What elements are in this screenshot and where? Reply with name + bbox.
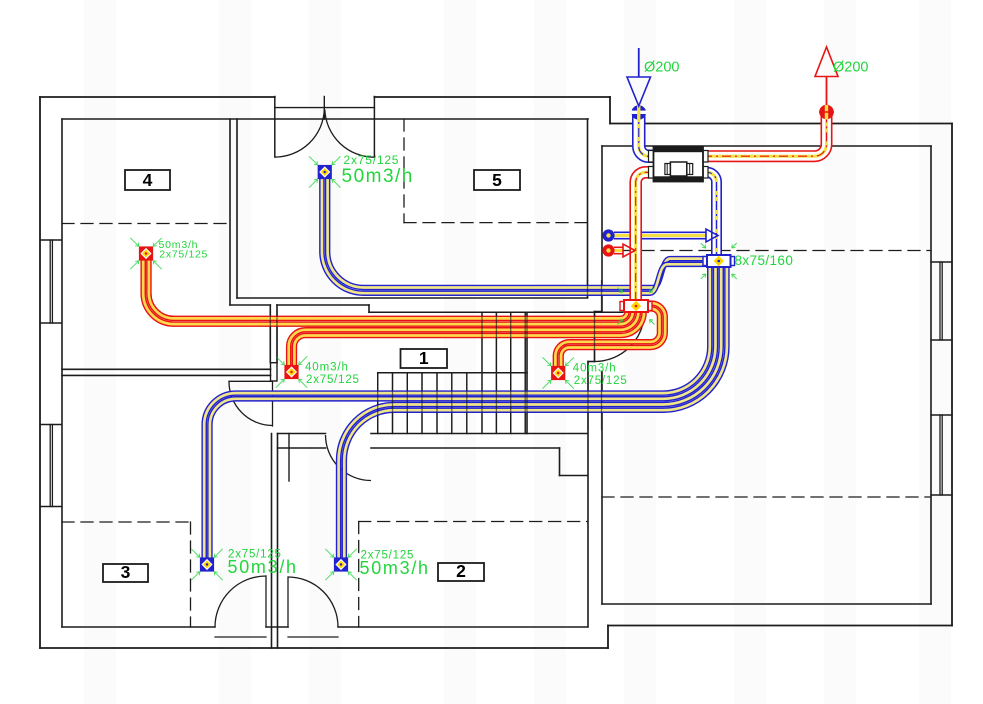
- door leaf bottom-left: [265, 576, 267, 627]
- door swing arc room3: [229, 381, 273, 425]
- blue duct B6 manifold to terminal TBM (inner): [344, 267, 727, 558]
- wall main right overlay: [587, 280, 589, 297]
- blue stub end cap: [603, 230, 614, 241]
- svg-text:4: 4: [143, 170, 153, 190]
- door swing bottom-left: [215, 576, 266, 627]
- room label box 3: [103, 564, 148, 582]
- stair tread upper overlay 1: [481, 312, 483, 433]
- dashed zone wing lower: [602, 496, 931, 498]
- stair right edge: [526, 312, 528, 433]
- stair tread lower 5: [436, 373, 438, 434]
- wall divider line1: [62, 368, 271, 370]
- red pipe centerline dashes: [636, 172, 654, 300]
- stair tread upper 1: [481, 312, 483, 433]
- dashed zone room2 vert: [358, 522, 360, 628]
- wall wing bottom inner: [602, 603, 931, 605]
- svg-text:50m3/h: 50m3/h: [228, 557, 298, 577]
- stair tread lower 6: [451, 373, 453, 434]
- wall outer wing bottom: [608, 625, 952, 627]
- blue stub duct plant room: [614, 232, 706, 240]
- stair tread upper overlay 2: [495, 312, 497, 433]
- wall alcove bottom: [560, 475, 588, 477]
- svg-text:50m3/h: 50m3/h: [360, 558, 430, 578]
- wall outer step top-right: [609, 97, 611, 124]
- window left W1: [40, 239, 61, 241]
- red duct R3 manifold to terminal TL (outer): [289, 312, 639, 366]
- door jamb left: [274, 97, 276, 158]
- dashed zone wing upper: [604, 250, 931, 252]
- wall corridor bottom segA: [278, 433, 326, 435]
- wall corridor bottom2 segB: [371, 447, 560, 449]
- wall outer wing top: [610, 123, 952, 125]
- red stub end cap: [603, 245, 614, 256]
- red duct R5 manifold U-turn to terminal TR (inner): [555, 309, 659, 367]
- stair upper edge / shaft wall: [369, 311, 623, 313]
- intake roof cap (blue): [631, 105, 646, 120]
- wall shaft right: [594, 312, 596, 362]
- AHU port collars: [649, 151, 654, 163]
- red duct R6 manifold U-turn to terminal TR (outer): [561, 303, 665, 366]
- wall shaft jog: [588, 361, 595, 363]
- stair tread upper overlay 3: [510, 312, 512, 433]
- blue duct B3 manifold to terminal TBL (outer): [204, 267, 710, 558]
- stair tread lower 3: [406, 373, 408, 434]
- blue duct pair B2 manifold to terminal T5 (outer): [322, 179, 707, 294]
- svg-text:2x75/125: 2x75/125: [574, 375, 628, 387]
- dashed zone room3 horiz: [62, 521, 191, 523]
- wall inner bottom seg1: [62, 626, 215, 628]
- stair tread lower 1: [377, 373, 379, 434]
- red roof pipe centerline dashes: [703, 109, 827, 156]
- dashed zone room3 vert: [190, 522, 192, 627]
- room label box 2: [438, 563, 484, 581]
- exhaust roof cap (red): [819, 105, 834, 120]
- room label box 5: [474, 170, 520, 190]
- red duct R2 manifold to terminal T4 (outer): [143, 260, 633, 324]
- red stub duct plant room: [614, 247, 623, 255]
- wall wing left overlay upper: [601, 280, 603, 312]
- svg-text:2x75/125: 2x75/125: [159, 249, 208, 261]
- dashed zone room5 horiz: [404, 222, 588, 224]
- threshold bottom-left door: [215, 636, 266, 638]
- door leaf room3 horizontal: [229, 380, 273, 382]
- blue intake pipe DN200 to AHU: [639, 109, 654, 156]
- door jamb right: [373, 97, 375, 158]
- room label box 4: [125, 170, 170, 190]
- wall inner bottom seg2: [266, 626, 288, 628]
- intake arrow down: [638, 48, 640, 77]
- blue stub arrow: [706, 229, 718, 242]
- blue duct pair B1 manifold to terminal T5 (inner): [328, 179, 707, 288]
- wall wing top inner: [602, 145, 931, 147]
- wall west band left: [269, 305, 271, 363]
- red pipe AHU to extract manifold: [636, 172, 654, 300]
- wall corridor top2 segB: [277, 304, 369, 306]
- svg-text:3: 3: [121, 562, 131, 582]
- blue intake centerline dashes: [639, 109, 654, 156]
- air valve terminal T4 50m3/h: [140, 247, 152, 259]
- wall shaft right overlay: [594, 312, 596, 362]
- wall outer main bottom: [40, 647, 608, 649]
- wall room4 right: [229, 119, 231, 305]
- stair tread lower overlay 5: [436, 373, 438, 434]
- supply manifold 8x75/160 (blue): [703, 257, 707, 266]
- wall jog stair: [368, 305, 370, 312]
- wall outer top-right: [374, 96, 610, 98]
- room label box 1: [401, 349, 448, 368]
- red stub arrow: [623, 244, 635, 257]
- svg-text:Ø200: Ø200: [644, 60, 679, 76]
- wall inner right lower (main): [587, 362, 589, 628]
- wall inner bottom seg3: [338, 626, 588, 628]
- red exhaust pipe DN200 to roof: [703, 109, 827, 156]
- scan banding background: [84, 0, 116, 704]
- wall corridor bottom2 segA: [278, 447, 326, 449]
- dashed zone room4: [62, 223, 230, 225]
- svg-text:2: 2: [456, 561, 466, 581]
- wall west band right overlay: [276, 310, 278, 363]
- stair tread lower overlay 3: [406, 373, 408, 434]
- svg-text:50m3/h: 50m3/h: [342, 166, 414, 187]
- svg-text:5: 5: [492, 170, 502, 190]
- wall outer top-left: [40, 96, 275, 98]
- svg-text:2x75/125: 2x75/125: [344, 153, 400, 167]
- door swing arc left: [275, 110, 325, 158]
- door jamb cap: [271, 363, 278, 381]
- stair tread lower overlay 4: [421, 373, 423, 434]
- wall wing right inner: [930, 146, 932, 604]
- door leaf room3 vertical: [272, 381, 274, 426]
- stair tread lower 7: [466, 373, 468, 434]
- blue duct B5 manifold to terminal TBM (outer): [339, 267, 722, 558]
- wall inner right upper (main): [587, 119, 589, 297]
- door swing arc right: [325, 110, 375, 158]
- svg-text:8x75/160: 8x75/160: [735, 253, 794, 268]
- air valve terminal T5 50m3/h: [319, 166, 331, 178]
- wall divider line2: [62, 374, 271, 376]
- blue duct B4 manifold to terminal TBL (inner): [210, 267, 716, 558]
- dashed zone room2 horiz: [359, 521, 588, 523]
- wall main right lower overlay: [587, 362, 589, 431]
- dashed zone room5 vert: [403, 119, 405, 223]
- stair tread upper 3: [510, 312, 512, 433]
- stair tread lower overlay 6: [451, 373, 453, 434]
- door swing arc corridor: [326, 435, 372, 481]
- air valve terminal TBL 50m3/h: [201, 558, 213, 570]
- blue pipe centerline dashes: [703, 172, 717, 255]
- threshold bottom-right door: [288, 636, 338, 638]
- wall alcove left: [559, 448, 561, 476]
- stair tread lower overlay 1: [377, 373, 379, 434]
- svg-text:1: 1: [419, 348, 429, 368]
- svg-text:40m3/h: 40m3/h: [573, 363, 617, 375]
- window wing WA: [931, 261, 952, 263]
- red duct R1 manifold to terminal T4 (inner): [149, 260, 627, 318]
- wall outer wing right: [951, 124, 953, 626]
- wall inner left: [61, 119, 63, 627]
- door swing wing: [595, 312, 645, 362]
- svg-text:40m3/h: 40m3/h: [305, 361, 349, 373]
- air valve terminal TL 40m3/h: [285, 366, 297, 378]
- wall wing left overlay lower: [601, 372, 603, 431]
- stair tread upper 2: [495, 312, 497, 433]
- air valve terminal TR 40m3/h: [552, 367, 564, 379]
- window left W2: [40, 424, 61, 426]
- wall corridor bottom segB: [371, 433, 588, 435]
- wall inner top: [62, 118, 588, 120]
- stair tread upper overlay 4: [524, 312, 526, 433]
- wall west band right: [276, 305, 278, 363]
- door head wing: [595, 311, 602, 313]
- svg-text:2x75/125: 2x75/125: [306, 374, 360, 386]
- stair right edge overlay: [526, 312, 528, 433]
- wall corridor top2 segA: [230, 304, 270, 306]
- door swing bottom-right: [288, 577, 338, 627]
- door head line: [275, 107, 375, 109]
- svg-text:Ø200: Ø200: [833, 60, 868, 76]
- exhaust arrow up: [826, 77, 828, 106]
- air valve terminal TBM 50m3/h: [335, 558, 347, 570]
- wall lower-left line2: [277, 434, 279, 649]
- blue pipe AHU to supply manifold: [703, 172, 717, 255]
- door center meeting line: [323, 97, 325, 120]
- wall hall left: [236, 119, 238, 298]
- wall wing left upper: [601, 146, 603, 312]
- stair tread upper 4: [524, 312, 526, 433]
- stair lower edge: [378, 372, 527, 374]
- extract manifold (red): [620, 302, 624, 311]
- door jamb lower: [288, 434, 290, 482]
- door leaf bottom-right: [287, 577, 289, 627]
- stair tread lower 2: [392, 373, 394, 434]
- wall wing left lower: [601, 372, 603, 605]
- wall lower-left line1: [271, 434, 273, 649]
- stair tread lower 4: [421, 373, 423, 434]
- wall outer main left: [39, 97, 41, 648]
- wall corridor top: [237, 297, 588, 299]
- red duct R4 manifold to terminal TL (inner): [294, 312, 644, 366]
- wall outer step bottom: [607, 626, 609, 649]
- stair tread lower overlay 2: [392, 373, 394, 434]
- stair tread lower overlay 7: [466, 373, 468, 434]
- wall west band left overlay: [269, 310, 271, 363]
- window wing WB: [931, 414, 952, 416]
